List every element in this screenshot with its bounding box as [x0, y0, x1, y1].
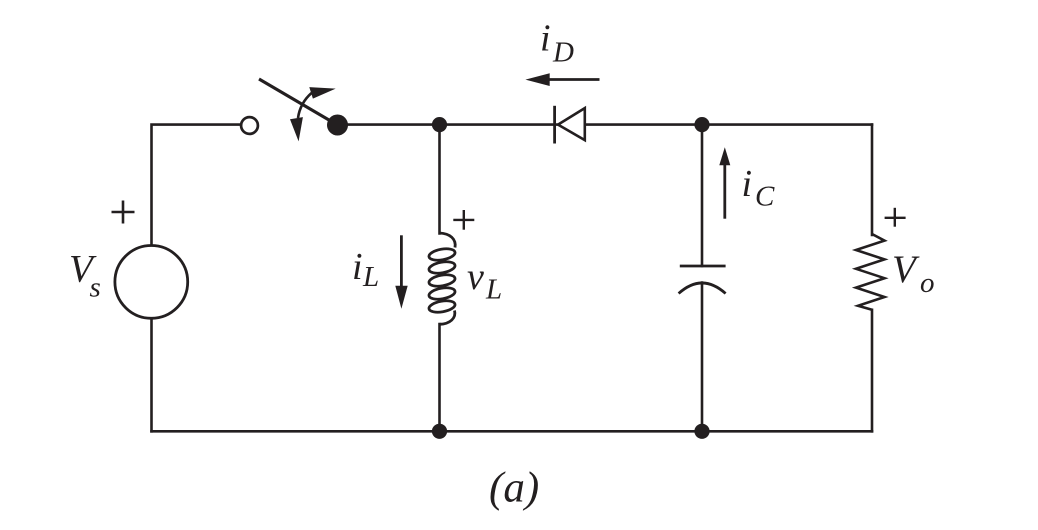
- label iL: [352, 246, 379, 293]
- svg-text:L: L: [485, 274, 502, 306]
- switch motion arrowhead (lower, pointing down): [290, 117, 303, 141]
- wire: inductor branch top segment: [438, 125, 441, 234]
- node: junction dot at inductor bottom: [432, 424, 447, 439]
- wire: inductor branch bottom segment: [438, 324, 441, 431]
- node: junction dot at inductor top: [432, 117, 447, 132]
- wire: right rail top segment: [871, 125, 874, 235]
- wire: right rail bottom segment: [871, 310, 874, 432]
- capacitor C bottom plate (curved): [679, 283, 726, 294]
- wire: capacitor branch top segment: [701, 125, 704, 266]
- capacitor C top plate: [680, 265, 726, 268]
- svg-text:D: D: [552, 37, 574, 69]
- node: junction dot at capacitor bottom: [694, 424, 709, 439]
- switch pole dot: [327, 115, 348, 136]
- switch motion arrowhead (upper, pointing right): [309, 87, 335, 99]
- wire: top rail from diode cathode base to top-right corner: [585, 123, 872, 126]
- diode cathode bar: [553, 106, 556, 144]
- inductor L coil: [428, 233, 456, 324]
- label iC: [742, 163, 776, 213]
- svg-text:(a): (a): [489, 464, 539, 511]
- svg-text:o: o: [920, 267, 935, 299]
- wire: top rail from switch pole to diode anode apex: [338, 123, 559, 126]
- diode triangle: [558, 108, 585, 140]
- current arrow iD (pointing left): [525, 73, 599, 86]
- switch open terminal (small circle): [241, 117, 258, 134]
- svg-text:C: C: [755, 180, 775, 212]
- polarity plus sign at inductor: [453, 210, 474, 230]
- wire: bottom rail: [152, 430, 873, 433]
- svg-text:L: L: [362, 261, 379, 293]
- current arrow iL (pointing down): [395, 235, 407, 308]
- label vL: [467, 256, 502, 306]
- node: junction dot at capacitor top: [694, 117, 709, 132]
- svg-text:v: v: [467, 256, 484, 298]
- voltage source Vs (circle): [115, 246, 188, 319]
- svg-text:i: i: [742, 163, 753, 205]
- polarity plus sign at source: [112, 201, 135, 224]
- svg-text:i: i: [352, 246, 363, 288]
- label Vs: [69, 248, 101, 304]
- polarity plus sign at resistor: [885, 208, 906, 227]
- svg-text:V: V: [892, 248, 920, 291]
- current arrow iC (pointing up): [719, 147, 730, 219]
- switch blade: [259, 79, 338, 125]
- svg-text:i: i: [540, 17, 551, 59]
- svg-text:s: s: [90, 272, 101, 304]
- wire: top rail from source to switch open terminal: [152, 125, 242, 245]
- wire: left rail below source to bottom-left corner: [150, 319, 153, 432]
- resistor R (zigzag): [856, 234, 885, 310]
- wire: capacitor branch bottom segment: [701, 283, 704, 432]
- switch motion arc: [298, 93, 312, 118]
- label Vo: [892, 248, 935, 299]
- label iD: [540, 17, 574, 68]
